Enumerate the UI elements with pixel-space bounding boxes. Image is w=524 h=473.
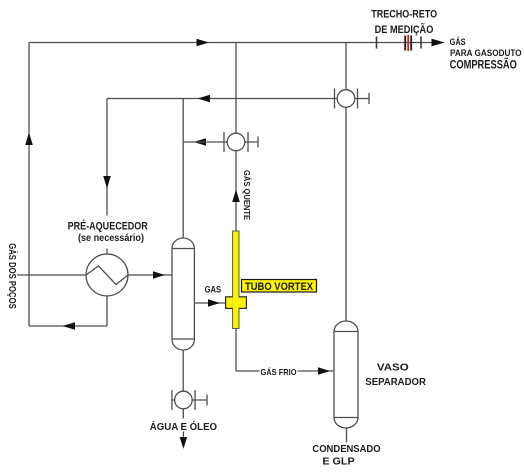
arrow down agua e oleo outlet <box>180 437 188 449</box>
wire gas frio right segment <box>298 370 335 372</box>
wire exchanger inlet drop lower <box>106 249 108 255</box>
wire vessel1 top riser <box>182 99 184 239</box>
wire left riser <box>28 43 30 327</box>
valve U1 top right <box>335 89 370 109</box>
vortex tube yellow body <box>233 231 239 329</box>
svg-text:DE MEDIÇÃO: DE MEDIÇÃO <box>375 23 434 36</box>
arrow right into vessel1 <box>153 271 165 279</box>
arrow right gas into vortex <box>208 299 220 307</box>
svg-text:TUBO VORTEX: TUBO VORTEX <box>245 281 314 293</box>
svg-text:GÁS FRIO: GÁS FRIO <box>260 367 296 377</box>
orifice plate black bar right <box>410 36 412 51</box>
svg-text:GÁS QUENTE: GÁS QUENTE <box>242 170 252 220</box>
wire vessel1 bottom to valve C <box>182 350 184 391</box>
svg-text:SEPARADOR: SEPARADOR <box>365 376 426 388</box>
svg-text:GÁS: GÁS <box>450 37 466 47</box>
arrow left on long y98 line <box>198 95 211 103</box>
wire feed line left <box>17 274 86 276</box>
wire gas frio left segment <box>236 370 260 372</box>
label TUBO VORTEX box <box>242 280 317 294</box>
vessel V1 separator column <box>172 238 194 350</box>
wire bottom return line <box>29 325 107 327</box>
svg-text:E GLP: E GLP <box>322 456 354 468</box>
svg-text:(se necessário): (se necessário) <box>78 233 144 244</box>
orifice plate black bar left <box>404 36 406 51</box>
svg-text:COMPRESSÃO: COMPRESSÃO <box>450 59 517 72</box>
tick measurement t1 <box>376 37 378 49</box>
arrow outlet to gasoduto <box>432 39 445 47</box>
vortex tube bore through generator <box>232 298 239 308</box>
valve U3 water oil drain <box>172 390 207 410</box>
wire long horizontal y98 <box>107 98 337 100</box>
orifice plate red bar <box>407 35 409 51</box>
wire exchanger inlet drop upper <box>106 99 108 216</box>
wire exchanger to vessel1 <box>128 274 172 276</box>
wire vortex bottom drop <box>235 329 237 372</box>
valve U2 hot gas <box>183 132 258 152</box>
wire vertical from top to valve B <box>235 43 237 134</box>
arrow down on exchanger inlet drop <box>103 176 111 189</box>
wire vessel1 gas outlet <box>194 302 225 304</box>
arrow left on bottom return <box>63 322 76 330</box>
vortex tube generator crossbar <box>226 297 247 309</box>
svg-text:VASO: VASO <box>377 361 409 373</box>
svg-text:GÁS DOS POÇOS: GÁS DOS POÇOS <box>6 243 19 309</box>
arrow up on left riser <box>25 133 33 146</box>
wire exchanger outlet drop <box>106 296 108 326</box>
wire valve A riser <box>345 43 347 90</box>
heat exchanger E1 pre-aquecedor <box>86 254 128 296</box>
wire top header line <box>29 42 433 44</box>
svg-text:CONDENSADO: CONDENSADO <box>312 443 380 455</box>
wire vessel2 bottom stub <box>346 428 348 443</box>
svg-text:ÁGUA E ÓLEO: ÁGUA E ÓLEO <box>150 420 218 433</box>
svg-text:GAS: GAS <box>205 285 222 295</box>
arrow right gas frio into vessel2 <box>318 367 330 375</box>
wire below agua e oleo text <box>182 432 184 439</box>
svg-text:PRÉ-AQUECEDOR: PRÉ-AQUECEDOR <box>68 220 148 233</box>
vessel V2 vaso separador <box>334 321 358 428</box>
wire valve A to vessel2 <box>345 107 347 321</box>
tick measurement t2 <box>420 37 422 49</box>
arrow right on top line <box>197 39 210 47</box>
arrow up gas quente <box>232 190 240 203</box>
svg-text:PARA GASODUTO: PARA GASODUTO <box>450 48 522 58</box>
wire valve B to vortex top <box>235 151 237 231</box>
svg-text:TRECHO-RETO: TRECHO-RETO <box>371 9 437 21</box>
arrow left on valve B line <box>194 138 207 146</box>
wire below valve C <box>182 409 184 419</box>
